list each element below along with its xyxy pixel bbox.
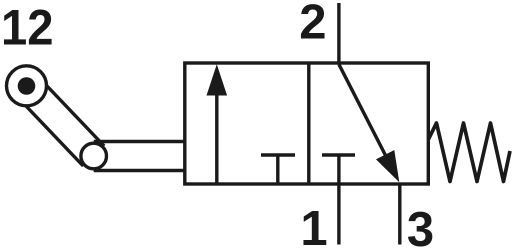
svg-text:12: 12: [1, 0, 54, 56]
svg-text:3: 3: [407, 203, 434, 249]
svg-text:1: 1: [300, 202, 327, 249]
port 1 connection line: [337, 183, 340, 245]
roller axle dot: [18, 77, 36, 95]
flow path arrowhead (left position): [207, 64, 228, 95]
return spring: [428, 123, 510, 182]
lever arm diagonal link lower edge: [16, 96, 83, 167]
valve body outline: [185, 63, 428, 184]
blocked port T bar (right position): [322, 153, 355, 156]
roller wheel outer circle: [7, 66, 47, 106]
lever arm horizontal link bottom edge: [94, 169, 187, 172]
svg-text:2: 2: [299, 0, 326, 49]
blocked port T stem (left position): [276, 155, 279, 184]
lever arm horizontal link top edge: [94, 140, 187, 143]
position divider line: [307, 63, 310, 184]
flow path diagonal arrowhead (right position): [376, 150, 399, 182]
flow path arrow stem (left position): [215, 92, 218, 184]
port 3 connection line: [398, 183, 401, 245]
lever arm diagonal link upper edge: [37, 76, 104, 147]
lever pivot joint circle: [81, 143, 107, 169]
port 2 connection line: [337, 3, 340, 65]
blocked port T bar (left position): [261, 153, 295, 156]
flow path diagonal arrow stem (right position): [339, 64, 390, 164]
blocked port T stem (right position): [337, 155, 340, 184]
